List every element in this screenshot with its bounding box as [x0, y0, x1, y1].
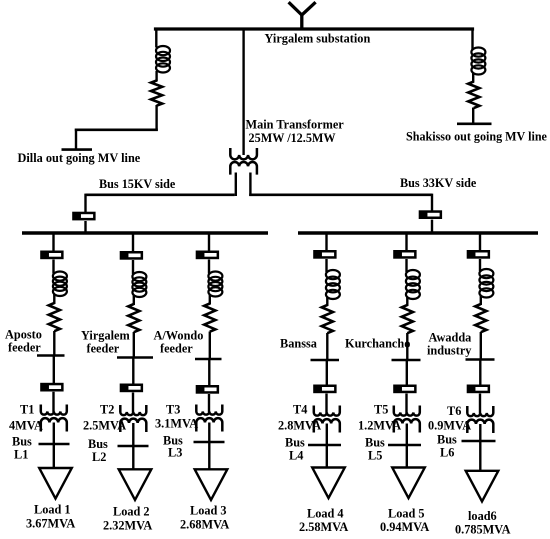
inductor feeder 1 reactor [53, 272, 67, 297]
breaker feeder 4 (bus side) [314, 251, 335, 257]
wire [472, 73, 474, 83]
wire [208, 394, 210, 412]
wire [405, 394, 407, 414]
wire [53, 423, 55, 469]
svg-text:25MW /12.5MW: 25MW /12.5MW [249, 131, 336, 145]
wire [479, 259, 481, 271]
resistor feeder 6 impedance [475, 304, 486, 332]
svg-text:L5: L5 [368, 449, 382, 463]
svg-text:L1: L1 [14, 448, 28, 462]
wire [479, 360, 481, 387]
transformer Main 25MW/12.5MW [230, 148, 257, 175]
wire [480, 332, 482, 361]
svg-text:Bus 33KV side: Bus 33KV side [400, 176, 477, 190]
bus 33KV busbar [298, 231, 538, 234]
wire [479, 394, 481, 414]
terminal Dilla out going MV line [62, 148, 93, 151]
node feeder 5 sectioning point [392, 359, 421, 362]
wire [208, 359, 210, 387]
wire [326, 424, 328, 468]
svg-text:feeder: feeder [87, 342, 120, 356]
wire [52, 392, 54, 412]
svg-text:0.9MVA: 0.9MVA [428, 419, 471, 433]
inductor feeder 6 reactor [479, 269, 493, 298]
svg-text:T3: T3 [166, 403, 180, 417]
inductor Shakisso line reactor [471, 48, 485, 75]
wire [472, 108, 474, 125]
wire [326, 333, 328, 361]
breaker feeder 1 (bus side) [41, 252, 62, 258]
antenna / incoming supply [289, 2, 316, 30]
svg-text:Bus: Bus [12, 435, 32, 449]
wire [325, 259, 327, 272]
node feeder 3 sectioning point [195, 358, 222, 361]
wire main transformer feed [242, 28, 244, 156]
wire Shakisso drop [471, 28, 473, 50]
wire [53, 356, 55, 385]
resistor feeder 1 impedance [49, 303, 60, 331]
breaker feeder 3 (transformer side) [197, 386, 218, 392]
node feeder 1 sectioning point [37, 354, 65, 357]
svg-text:T4: T4 [293, 403, 307, 417]
svg-text:A/Wondo: A/Wondo [154, 329, 204, 343]
breaker feeder 6 (bus side) [468, 251, 489, 257]
wire [53, 294, 55, 304]
wire [84, 221, 86, 233]
svg-text:T1: T1 [20, 403, 34, 417]
wire to 33KV bus [249, 194, 432, 197]
svg-text:Bus 15KV side: Bus 15KV side [99, 177, 176, 191]
node bus L2 crossbar [118, 445, 149, 448]
svg-text:L2: L2 [92, 450, 106, 464]
wire feeder 6 tap from bus [479, 233, 481, 252]
svg-text:T6: T6 [447, 404, 461, 418]
svg-text:Load 4: Load 4 [307, 507, 344, 521]
load 4 arrow [312, 468, 345, 499]
breaker 33KV incomer [420, 212, 441, 218]
wire [326, 360, 328, 386]
breaker feeder 1 (transformer side) [41, 384, 62, 390]
svg-text:2.58MVA: 2.58MVA [299, 520, 348, 534]
svg-text:industry: industry [427, 344, 472, 358]
svg-text:Yirgalem: Yirgalem [81, 329, 130, 343]
wire [52, 260, 54, 274]
svg-text:Yirgalem substation: Yirgalem substation [265, 32, 371, 46]
svg-text:L4: L4 [289, 449, 303, 463]
load 3 arrow [195, 469, 228, 500]
svg-text:feeder: feeder [8, 341, 41, 355]
wire feeder 5 tap from bus [405, 233, 407, 252]
svg-text:Bus: Bus [285, 436, 305, 450]
svg-text:0.785MVA: 0.785MVA [455, 523, 511, 537]
node bus L3 crossbar [194, 441, 225, 444]
wire left leg [235, 173, 237, 197]
svg-text:Kurchancho: Kurchancho [345, 337, 410, 351]
inductor feeder 3 reactor [208, 272, 222, 297]
breaker feeder 4 (transformer side) [314, 386, 335, 392]
wire feeder 2 tap from bus [132, 233, 134, 253]
transformer T1 4MVA [41, 405, 67, 432]
terminal Shakisso out going MV line [457, 123, 492, 126]
svg-text:Banssa: Banssa [280, 337, 317, 351]
bus 15KV busbar [22, 231, 268, 234]
wire [155, 71, 157, 82]
svg-text:2.32MVA: 2.32MVA [103, 519, 152, 533]
wire Dilla drop [155, 28, 157, 48]
wire [326, 297, 328, 306]
svg-text:3.1MVA: 3.1MVA [155, 417, 198, 431]
svg-text:L6: L6 [440, 446, 454, 460]
wire [405, 259, 407, 272]
node feeder 2 sectioning point [117, 356, 153, 359]
wire Dilla vertical [75, 129, 77, 150]
node feeder 6 sectioning point [466, 358, 495, 361]
wire [53, 331, 55, 357]
transformer T6 0.9MVA [467, 406, 493, 433]
breaker feeder 2 (bus side) [121, 252, 142, 258]
breaker feeder 3 (bus side) [197, 252, 218, 258]
node bus L6 crossbar [462, 440, 496, 443]
wire [406, 360, 408, 386]
load 6 arrow [466, 471, 499, 502]
svg-text:Load 1: Load 1 [34, 503, 71, 517]
wire right leg [249, 173, 251, 197]
wire feeder 4 tap from bus [325, 233, 327, 252]
wire feeder 1 tap from bus [52, 233, 54, 252]
svg-text:Bus: Bus [365, 436, 385, 450]
svg-text:4MVA: 4MVA [9, 419, 43, 433]
breaker feeder 2 (transformer side) [121, 385, 142, 391]
wire [431, 220, 433, 233]
wire to 15KV bus [86, 194, 235, 197]
resistor Shakisso line impedance [468, 82, 479, 109]
resistor Dilla line impedance [151, 81, 162, 106]
svg-text:Load 2: Load 2 [113, 505, 150, 519]
breaker feeder 6 (transformer side) [468, 386, 489, 392]
wire [132, 358, 134, 386]
wire [133, 295, 135, 305]
svg-text:0.94MVA: 0.94MVA [380, 520, 429, 534]
inductor feeder 4 reactor [326, 270, 340, 299]
wire 33KV drop [431, 194, 433, 212]
transformer T5 1.2MVA [394, 406, 420, 433]
svg-text:Awadda: Awadda [429, 331, 472, 345]
breaker feeder 5 (bus side) [394, 251, 415, 257]
breaker 15KV incomer [73, 213, 94, 219]
svg-text:Bus: Bus [437, 433, 457, 447]
wire [155, 105, 157, 131]
transformer T4 2.8MVA [314, 406, 340, 433]
wire [133, 332, 135, 359]
svg-text:3.67MVA: 3.67MVA [26, 517, 75, 531]
wire [406, 424, 408, 468]
breaker feeder 5 (transformer side) [394, 386, 415, 392]
wire [132, 393, 134, 413]
load 1 arrow [39, 468, 72, 499]
wire [406, 333, 408, 361]
svg-text:Bus: Bus [88, 437, 108, 451]
wire Dilla horizontal [75, 129, 158, 132]
node bus L1 crossbar [39, 443, 70, 446]
wire [208, 423, 210, 470]
wire [132, 423, 134, 469]
node bus L4 crossbar [308, 444, 341, 447]
svg-text:2.68MVA: 2.68MVA [180, 518, 229, 532]
resistor feeder 5 impedance [402, 305, 413, 333]
transformer T3 3.1MVA [196, 405, 222, 432]
svg-text:Shakisso out going MV line: Shakisso out going MV line [406, 130, 548, 144]
wire [209, 332, 211, 361]
wire [132, 260, 134, 274]
inductor Dilla line reactor [156, 46, 170, 73]
node feeder 4 sectioning point [311, 359, 340, 362]
svg-text:T5: T5 [374, 403, 388, 417]
wire [209, 295, 211, 305]
svg-text:Aposto: Aposto [5, 328, 42, 342]
wire main top horizontal [154, 27, 474, 30]
inductor feeder 2 reactor [132, 272, 146, 297]
resistor feeder 2 impedance [128, 304, 139, 332]
resistor feeder 3 impedance [204, 304, 215, 332]
wire [325, 394, 327, 414]
svg-text:L3: L3 [168, 446, 182, 460]
load 2 arrow [119, 469, 152, 500]
node bus L5 crossbar [388, 444, 421, 447]
svg-text:Main Transformer: Main Transformer [246, 117, 345, 131]
wire [208, 260, 210, 274]
wire 15KV drop [84, 194, 86, 213]
svg-text:Load 3: Load 3 [190, 504, 227, 518]
svg-text:load6: load6 [468, 509, 497, 523]
svg-text:Load 5: Load 5 [388, 507, 425, 521]
svg-text:Dilla out going MV line: Dilla out going MV line [18, 151, 141, 165]
svg-text:T2: T2 [100, 403, 114, 417]
wire [479, 424, 481, 471]
svg-text:feeder: feeder [160, 342, 193, 356]
wire [406, 297, 408, 306]
wire [480, 296, 482, 306]
transformer T2 2.5MVA [120, 405, 146, 432]
resistor feeder 4 impedance [322, 305, 333, 333]
inductor feeder 5 reactor [406, 270, 420, 299]
load 5 arrow [392, 468, 425, 499]
wire feeder 3 tap from bus [208, 233, 210, 252]
